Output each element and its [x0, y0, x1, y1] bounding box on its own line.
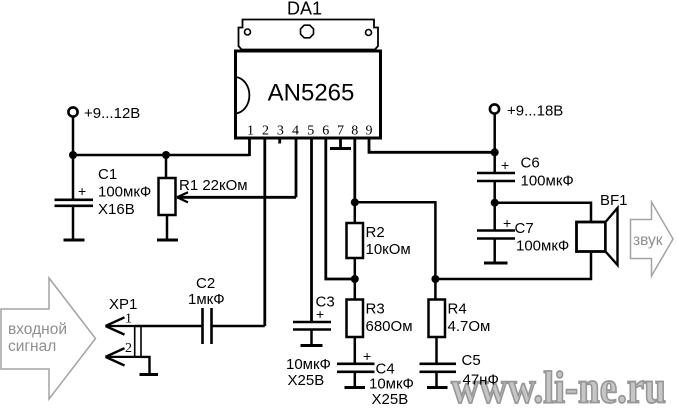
- op-amp IC DA1 tab: [239, 20, 379, 50]
- C2 labels: [188, 275, 225, 308]
- svg-text:100мкФ: 100мкФ: [516, 238, 569, 255]
- wire R1 bottom: [166, 215, 169, 239]
- input signal arrow (входной сигнал): [1, 278, 96, 399]
- ground C5: [427, 386, 448, 389]
- svg-text:Х25В: Х25В: [288, 372, 325, 389]
- ground C4: [345, 386, 366, 389]
- svg-text:R1 22кОм: R1 22кОм: [179, 177, 248, 194]
- node pin8/R2: [351, 198, 359, 206]
- wire speaker bottom rail: [435, 252, 591, 280]
- svg-text:C3: C3: [316, 294, 335, 311]
- XP1 bracket: [135, 325, 141, 358]
- svg-text:+: +: [78, 183, 86, 199]
- ground XP1: [140, 373, 159, 376]
- svg-text:2: 2: [262, 124, 269, 139]
- wire XP1 pin2 to ground: [141, 357, 150, 374]
- svg-text:сигнал: сигнал: [8, 338, 56, 355]
- ground pin 7: [330, 147, 351, 150]
- svg-text:C6: C6: [521, 155, 540, 172]
- C5 labels: [462, 352, 499, 389]
- pin 5 wire to C3: [310, 137, 313, 321]
- capacitor C1: [55, 183, 94, 206]
- svg-text:R4: R4: [448, 301, 467, 318]
- terminal +9...18V: [490, 103, 563, 120]
- svg-text:100мкФ: 100мкФ: [98, 184, 151, 201]
- pin numbers 1-9: [247, 124, 373, 139]
- pin 9 wire to +18V rail: [369, 137, 495, 152]
- ground C7: [484, 262, 508, 265]
- node +18V rail: [491, 148, 499, 156]
- pin 6 wire: [326, 137, 355, 279]
- node C6/C7 speaker: [491, 199, 499, 207]
- wire C4 bottom: [354, 372, 357, 386]
- node R4 top: [431, 275, 439, 283]
- svg-text:R2: R2: [366, 224, 385, 241]
- sound arrow (звук): [631, 202, 674, 276]
- C1 value labels: [98, 166, 151, 218]
- svg-text:входной: входной: [8, 321, 67, 338]
- svg-text:47нФ: 47нФ: [463, 372, 499, 389]
- svg-text:2: 2: [125, 341, 132, 356]
- wire R1 wiper to pin 4: [177, 137, 296, 197]
- svg-text:BF1: BF1: [600, 192, 628, 209]
- left rail wire y=155: [73, 154, 250, 157]
- XP1 pin 2 arrow: [106, 341, 142, 366]
- svg-text:+: +: [363, 348, 371, 364]
- svg-text:1: 1: [247, 124, 254, 139]
- resistor R4: [429, 300, 446, 338]
- node C1 top: [69, 151, 77, 159]
- svg-text:4.7Ом: 4.7Ом: [448, 318, 491, 335]
- svg-text:5: 5: [307, 124, 314, 139]
- op-amp IC DA1 body AN5265: [236, 51, 381, 138]
- wire R2 bottom: [354, 258, 357, 279]
- pin 7 stub: [339, 137, 342, 148]
- resistor R2: [347, 223, 364, 258]
- capacitor C4: [337, 348, 375, 372]
- R4 labels: [448, 301, 491, 336]
- R2 labels: [366, 224, 411, 258]
- pin 1 wire: [248, 137, 251, 156]
- ground C3: [301, 344, 323, 347]
- connector XP1 label: [109, 296, 137, 313]
- svg-text:1: 1: [125, 311, 132, 326]
- ground R1: [157, 239, 178, 242]
- svg-text:XP1: XP1: [109, 296, 137, 313]
- svg-text:Х16В: Х16В: [98, 201, 135, 218]
- svg-text:звук: звук: [633, 232, 663, 249]
- svg-text:R3: R3: [366, 301, 385, 318]
- wire to speaker top: [495, 203, 591, 222]
- svg-text:7: 7: [337, 124, 344, 139]
- ground C1: [64, 239, 85, 242]
- svg-text:10мкФ: 10мкФ: [286, 356, 331, 373]
- resistor R3: [347, 300, 364, 338]
- svg-text:10мкФ: 10мкФ: [369, 376, 414, 393]
- node R2/R3: [351, 275, 359, 283]
- wire C3 bottom: [310, 330, 313, 345]
- terminal +9...12V: [68, 105, 140, 122]
- svg-text:9: 9: [366, 124, 373, 139]
- capacitor C6: [477, 157, 515, 181]
- watermark www.li-ne.ru: [451, 363, 666, 412]
- capacitor C7: [477, 215, 515, 239]
- svg-text:+9...12В: +9...12В: [84, 105, 140, 122]
- capacitor C5: [420, 364, 457, 372]
- wire R4 top feed: [434, 279, 437, 300]
- svg-text:Х25В: Х25В: [372, 391, 409, 408]
- svg-text:8: 8: [351, 124, 358, 139]
- speaker BF1: [577, 208, 618, 265]
- C7 labels: [515, 220, 570, 255]
- capacitor C2: [203, 308, 212, 344]
- svg-text:1мкФ: 1мкФ: [188, 291, 225, 308]
- pin 3 stub: [278, 137, 281, 144]
- BF1 label: [600, 192, 628, 209]
- svg-text:+9...18В: +9...18В: [507, 103, 563, 120]
- wire terminal to C6: [493, 114, 496, 172]
- svg-text:100мкФ: 100мкФ: [521, 173, 574, 190]
- C3 labels: [286, 294, 335, 390]
- R1 label: [179, 177, 248, 194]
- svg-text:C5: C5: [462, 352, 481, 369]
- svg-text:C1: C1: [98, 166, 117, 183]
- svg-text:C7: C7: [515, 220, 534, 237]
- svg-text:680Ом: 680Ом: [366, 318, 413, 335]
- wire C5 bottom: [435, 372, 438, 386]
- resistor R1 (potentiometer): [159, 178, 189, 215]
- svg-text:C2: C2: [196, 275, 215, 292]
- wire R1 top feed: [165, 155, 168, 178]
- node R1 top: [162, 151, 170, 159]
- svg-text:6: 6: [322, 124, 329, 139]
- svg-text:DA1: DA1: [287, 0, 322, 19]
- svg-text:AN5265: AN5265: [268, 80, 355, 107]
- pin 8 wire: [353, 137, 356, 202]
- DA1 label: [287, 0, 322, 19]
- C4 labels: [369, 361, 414, 409]
- wire C1 top: [72, 155, 75, 199]
- wire rail y202 to R4 branch: [355, 202, 436, 279]
- C6 labels: [521, 155, 574, 190]
- wire C7 bottom: [493, 239, 496, 262]
- wire XP1 to C2: [135, 325, 203, 327]
- XP1 pin 1 arrow: [106, 311, 136, 334]
- wire terminal to left rail: [72, 117, 75, 156]
- wire R4 bottom to C5: [435, 337, 438, 363]
- svg-text:+: +: [503, 215, 511, 231]
- svg-text:3: 3: [277, 124, 284, 139]
- wire R3 bottom to C4: [354, 337, 357, 363]
- wire R3 top feed: [354, 279, 357, 300]
- wire R2 top feed: [354, 202, 357, 223]
- svg-text:4: 4: [292, 124, 299, 139]
- wire C1 bottom: [72, 206, 75, 239]
- svg-text:+: +: [501, 157, 509, 173]
- svg-text:10кОм: 10кОм: [366, 241, 411, 258]
- wire C2 to pin 2: [212, 137, 265, 326]
- capacitor C3: [293, 306, 331, 330]
- wire C6 to C7: [493, 181, 496, 230]
- R3 labels: [366, 301, 413, 336]
